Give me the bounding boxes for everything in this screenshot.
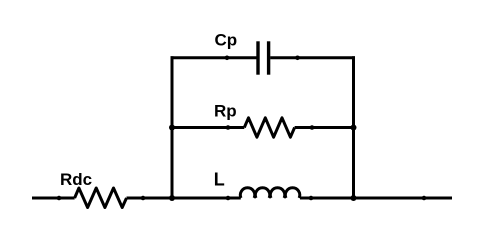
wire Rdc to node A xyxy=(127,197,173,200)
resistor Rp terminal marks xyxy=(226,125,231,130)
svg-text:L: L xyxy=(214,169,225,189)
resistor Rdc xyxy=(75,188,127,208)
wire top left xyxy=(171,56,257,59)
wire middle left xyxy=(172,126,244,129)
junction node A xyxy=(169,195,175,201)
wire right branch vertical xyxy=(352,56,355,199)
output terminal mark xyxy=(422,196,427,201)
capacitor Cp terminal marks xyxy=(225,56,230,61)
wire top right xyxy=(270,56,355,59)
resistor Rp xyxy=(244,118,294,137)
svg-text:Rp: Rp xyxy=(214,102,237,121)
svg-text:Cp: Cp xyxy=(215,30,238,49)
inductor L xyxy=(240,188,299,198)
capacitor Cp xyxy=(258,41,269,74)
wire node A to inductor xyxy=(172,197,241,200)
inductor L terminal marks xyxy=(226,196,231,201)
svg-text:Rdc: Rdc xyxy=(60,170,92,189)
wire output right xyxy=(354,197,453,200)
wire left branch vertical xyxy=(171,56,174,199)
wire input left xyxy=(32,197,75,200)
junction middle right xyxy=(351,125,357,131)
Rdc terminal marks xyxy=(57,196,62,201)
wire inductor to node B xyxy=(300,197,354,200)
junction node B xyxy=(351,195,357,201)
wire middle right xyxy=(295,126,354,129)
junction middle left xyxy=(169,125,175,131)
